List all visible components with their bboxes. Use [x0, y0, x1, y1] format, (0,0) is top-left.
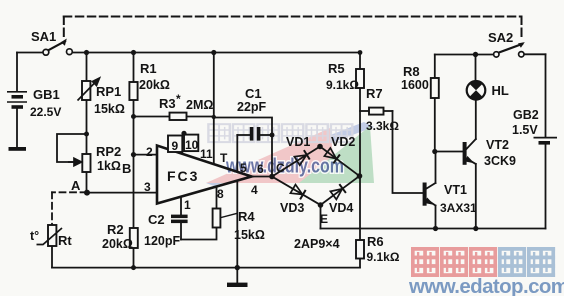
svg-text:3: 3	[144, 180, 151, 194]
svg-text:22.5V: 22.5V	[30, 105, 61, 119]
svg-text:10: 10	[185, 138, 199, 152]
svg-text:1600: 1600	[401, 78, 429, 92]
svg-text:*: *	[176, 92, 181, 106]
svg-text:A: A	[71, 178, 81, 193]
svg-text:C1: C1	[245, 86, 262, 101]
svg-text:R4: R4	[238, 209, 255, 224]
svg-text:2AP9×4: 2AP9×4	[294, 237, 340, 251]
svg-text:8: 8	[217, 187, 224, 201]
svg-text:C2: C2	[148, 212, 165, 227]
svg-text:120pF: 120pF	[144, 234, 180, 248]
svg-text:R6: R6	[367, 234, 384, 249]
svg-text:GB1: GB1	[33, 87, 60, 102]
svg-text:2: 2	[146, 145, 153, 159]
svg-text:R5: R5	[328, 61, 345, 76]
svg-text:FC3: FC3	[167, 168, 199, 184]
svg-text:R7: R7	[366, 86, 383, 101]
svg-text:1.5V: 1.5V	[512, 123, 538, 137]
svg-text:1kΩ: 1kΩ	[97, 159, 121, 173]
svg-text:11: 11	[200, 147, 213, 161]
svg-text:RP2: RP2	[96, 144, 121, 159]
svg-text:VD2: VD2	[331, 135, 355, 149]
svg-text:www.edatop.com: www.edatop.com	[408, 275, 564, 296]
svg-text:VD3: VD3	[280, 201, 304, 215]
svg-text:C: C	[276, 161, 285, 175]
svg-text:VD4: VD4	[329, 201, 353, 215]
svg-text:15kΩ: 15kΩ	[94, 102, 125, 116]
svg-text:T: T	[220, 151, 228, 165]
svg-text:22pF: 22pF	[237, 100, 267, 114]
svg-text:R8: R8	[403, 64, 420, 79]
svg-text:9.1kΩ: 9.1kΩ	[326, 78, 359, 92]
svg-text:3CK9: 3CK9	[484, 154, 516, 168]
svg-text:E: E	[320, 212, 328, 226]
svg-text:R3: R3	[159, 96, 176, 111]
svg-text:SA2: SA2	[488, 30, 513, 45]
svg-text:4: 4	[251, 183, 258, 197]
svg-text:1: 1	[184, 198, 191, 212]
svg-text:RP1: RP1	[96, 84, 121, 99]
svg-text:9: 9	[172, 139, 179, 153]
svg-text:3.3kΩ: 3.3kΩ	[366, 119, 399, 133]
svg-text:Rt: Rt	[58, 233, 72, 248]
svg-text:VT1: VT1	[444, 183, 467, 197]
svg-text:2MΩ: 2MΩ	[186, 98, 213, 112]
svg-text:t°: t°	[30, 229, 39, 243]
svg-text:HL: HL	[492, 83, 509, 98]
svg-text:6: 6	[257, 162, 264, 176]
svg-text:9.1kΩ: 9.1kΩ	[367, 250, 400, 264]
svg-text:VD1: VD1	[286, 135, 310, 149]
svg-text:R2: R2	[107, 222, 124, 237]
svg-text:B: B	[122, 161, 131, 176]
svg-text:SA1: SA1	[31, 29, 56, 44]
svg-text:20kΩ: 20kΩ	[102, 237, 133, 251]
svg-text:15kΩ: 15kΩ	[234, 228, 265, 242]
svg-text:5: 5	[240, 161, 247, 175]
svg-text:R1: R1	[140, 61, 157, 76]
svg-text:VT2: VT2	[486, 138, 509, 152]
svg-text:20kΩ: 20kΩ	[139, 78, 170, 92]
svg-text:GB2: GB2	[513, 108, 539, 122]
svg-text:3AX31: 3AX31	[440, 201, 477, 215]
